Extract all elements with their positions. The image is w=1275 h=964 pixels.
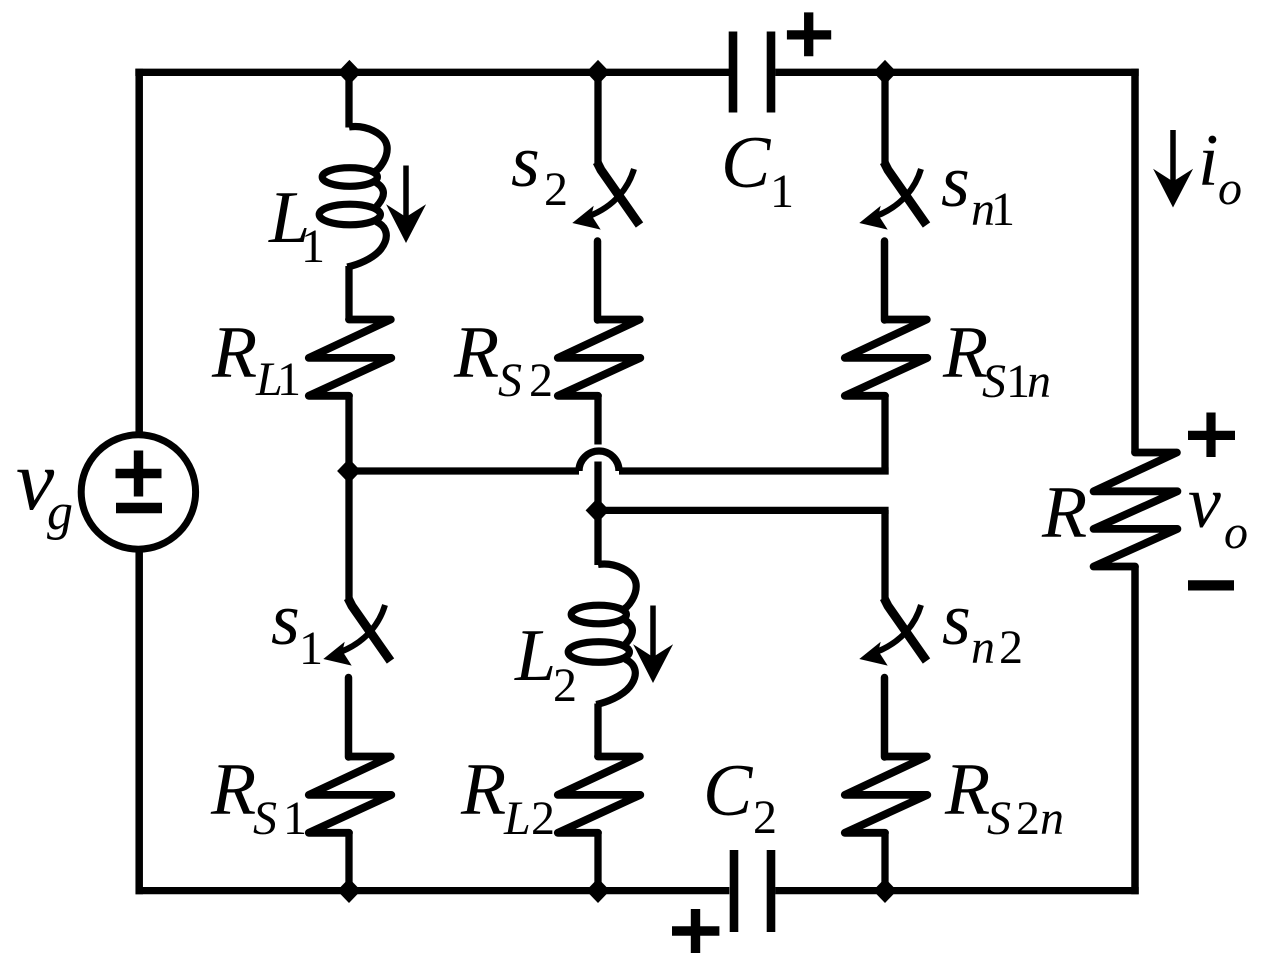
- inductor L1 coil: [319, 127, 387, 267]
- io current arrow: [1153, 130, 1193, 208]
- junction dot top branch 2: [586, 60, 610, 85]
- voltage source vg circle: [81, 435, 195, 549]
- junction dot bottom branch 2: [586, 878, 610, 903]
- mid wire 1 right of hop: [619, 467, 889, 474]
- svg-text:1: 1: [991, 183, 1015, 236]
- wire RL2 to bottom: [594, 833, 601, 890]
- wire sn1 top lead: [881, 69, 888, 166]
- wire right upper: [1131, 69, 1139, 452]
- wire L1 to RL1: [345, 266, 352, 320]
- svg-text:2: 2: [1016, 792, 1040, 845]
- wire top right segment: [775, 69, 1138, 76]
- svg-text:s: s: [942, 579, 971, 661]
- wire hop over branch 2: [579, 451, 619, 471]
- capacitor C2 right plate: [767, 850, 776, 932]
- wire bottom right segment: [775, 887, 1138, 894]
- junction dot top branch 1: [338, 60, 362, 85]
- resistor RS1n: [845, 320, 928, 396]
- resistor RS2: [558, 320, 641, 396]
- svg-text:2: 2: [553, 659, 577, 712]
- capacitor C1 right plate: [767, 32, 776, 113]
- wire sn2 to RS2n: [881, 678, 889, 758]
- L1 current arrow: [386, 166, 426, 244]
- svg-text:R: R: [460, 749, 506, 831]
- svg-text:s: s: [511, 121, 540, 203]
- svg-text:v: v: [1188, 462, 1221, 544]
- resistor RL1: [309, 320, 392, 396]
- svg-text:2: 2: [531, 792, 555, 845]
- L2 current arrow: [633, 606, 673, 684]
- switch sn1: [859, 162, 926, 230]
- wire RS1n to mid wire: [881, 396, 888, 475]
- svg-text:g: g: [47, 484, 73, 541]
- switch sn2: [859, 598, 926, 666]
- wire RS2 to hop gap: [594, 396, 601, 445]
- junction dot bottom branch 3: [873, 878, 897, 903]
- svg-text:o: o: [1224, 506, 1248, 559]
- vo plus sign: [1188, 413, 1235, 458]
- wire L2 to RL2: [594, 704, 601, 758]
- svg-text:1: 1: [277, 353, 301, 406]
- wire RL1 to node A: [345, 396, 352, 471]
- node B junction dot: [586, 498, 610, 523]
- node A junction dot: [337, 459, 361, 484]
- svg-text:n: n: [1040, 792, 1064, 845]
- switch s2: [572, 162, 639, 230]
- svg-text:R: R: [453, 312, 499, 394]
- svg-text:C: C: [721, 122, 772, 204]
- svg-text:R: R: [944, 749, 990, 831]
- svg-text:S: S: [498, 354, 522, 407]
- wire RS2n to bottom: [881, 833, 888, 890]
- svg-text:s: s: [271, 579, 300, 661]
- svg-text:L: L: [514, 615, 556, 697]
- vg plus sign: [116, 451, 162, 497]
- svg-text:R: R: [210, 749, 256, 831]
- svg-text:o: o: [1218, 162, 1242, 215]
- svg-text:2: 2: [544, 163, 568, 216]
- wire left lower: [135, 548, 143, 894]
- capacitor C2 left plate: [730, 850, 739, 932]
- vo minus sign: [1188, 580, 1234, 590]
- wire right lower: [1131, 567, 1139, 895]
- svg-text:R: R: [211, 312, 257, 394]
- svg-text:s: s: [941, 141, 970, 223]
- resistor R: [1094, 453, 1178, 567]
- wire s2 top lead: [594, 69, 601, 166]
- wire left upper: [135, 69, 143, 437]
- wire node B to L2: [594, 510, 601, 565]
- wire RS1 to bottom: [345, 833, 352, 890]
- wire node A to s1: [345, 471, 352, 602]
- svg-text:n: n: [1027, 355, 1051, 408]
- junction dot bottom branch 1: [337, 878, 361, 903]
- mid wire 2: [598, 507, 889, 514]
- switch s1: [323, 598, 390, 666]
- wire sn1 to RS1n: [881, 241, 889, 320]
- vg minus sign: [116, 503, 162, 514]
- svg-text:i: i: [1198, 120, 1219, 202]
- wire sn2 top lead: [881, 510, 888, 602]
- wire hop gap to node B: [594, 462, 601, 511]
- inductor L2 coil: [568, 564, 636, 704]
- svg-text:2: 2: [753, 791, 777, 844]
- C2 plus sign: [672, 909, 719, 953]
- svg-text:S: S: [982, 355, 1006, 408]
- wire s1 to RS1: [345, 678, 353, 758]
- wire top left segment: [135, 69, 729, 76]
- resistor RS1: [309, 757, 392, 833]
- wire L1 top lead: [345, 69, 352, 128]
- svg-text:S: S: [253, 792, 277, 845]
- mid wire 1 left of hop: [349, 467, 579, 474]
- svg-text:S: S: [987, 792, 1011, 845]
- svg-text:n: n: [971, 621, 995, 674]
- svg-text:R: R: [1041, 472, 1087, 554]
- wire s2 to RS2: [594, 241, 602, 320]
- svg-text:1: 1: [283, 792, 307, 845]
- wire bottom left segment: [136, 887, 730, 894]
- svg-text:2: 2: [529, 354, 553, 407]
- svg-text:1: 1: [301, 220, 325, 273]
- svg-text:1: 1: [770, 165, 794, 218]
- svg-text:C: C: [703, 750, 754, 832]
- resistor RS2n: [845, 757, 928, 833]
- svg-text:2: 2: [999, 621, 1023, 674]
- junction dot top branch 3: [873, 60, 897, 85]
- C1 plus sign: [787, 12, 831, 56]
- resistor RL2: [558, 757, 641, 833]
- svg-text:L: L: [503, 792, 531, 845]
- capacitor C1 left plate: [729, 32, 738, 113]
- svg-text:1: 1: [299, 622, 323, 675]
